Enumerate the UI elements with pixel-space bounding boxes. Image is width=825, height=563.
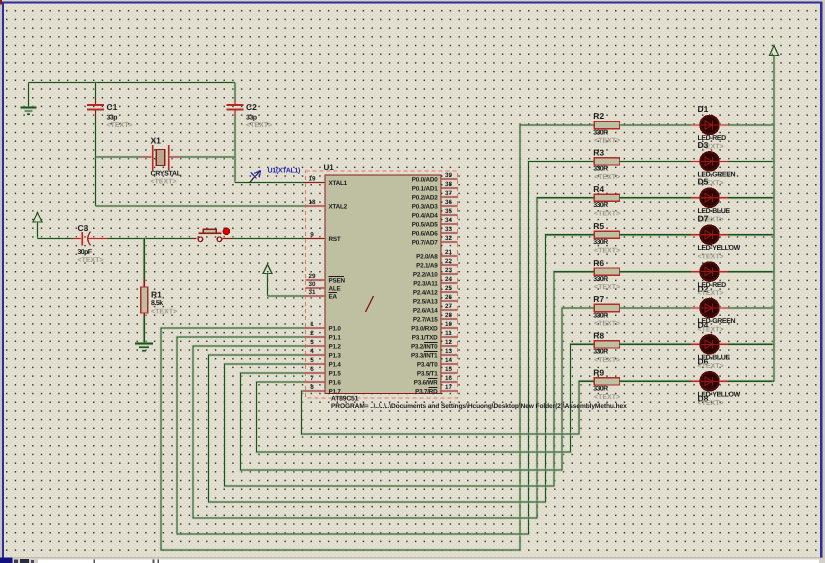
wire: D3 to power rail (728, 160, 774, 163)
svg-text:P3.6/WR: P3.6/WR (414, 379, 438, 386)
svg-text:<TEXT>: <TEXT> (698, 400, 724, 407)
svg-text:330R: 330R (593, 386, 608, 393)
svg-text:PSEN: PSEN (329, 277, 346, 284)
wire: button to RST (232, 237, 306, 240)
svg-text:33p: 33p (107, 115, 118, 122)
power symbol (top right) (770, 46, 779, 56)
svg-text:P2.6/A14: P2.6/A14 (413, 307, 438, 314)
svg-text:<TEXT>: <TEXT> (246, 122, 272, 129)
svg-text:39: 39 (445, 172, 453, 179)
U1 pin 1 (P1.0) (306, 321, 342, 332)
svg-text:14: 14 (445, 357, 453, 364)
wire: D4 to power rail (728, 306, 774, 309)
U1 pin 21 (P2.0/A8) (416, 249, 457, 260)
U1 pin 14 (P3.4/T0) (417, 357, 458, 368)
LED D3 (LED-GREEN) (691, 152, 728, 170)
svg-text:21: 21 (445, 249, 453, 256)
svg-text:11: 11 (445, 330, 452, 337)
wire: D1 to power rail (728, 123, 774, 126)
svg-text:AT89C51: AT89C51 (331, 396, 359, 403)
wire: P1.3 to R5 (209, 235, 595, 502)
wire: P1.0 to R2 (161, 125, 594, 550)
svg-text:P0.6/AD6: P0.6/AD6 (412, 230, 438, 237)
wire: D2 to power rail (728, 270, 774, 273)
svg-text:330R: 330R (593, 166, 608, 173)
U1 pin 23 (P2.2/A10) (413, 267, 458, 278)
resistor R7 (594, 304, 619, 311)
svg-text:<TEXT>: <TEXT> (698, 363, 724, 370)
wire: power to EA pin (268, 294, 306, 297)
svg-text:R3: R3 (593, 148, 604, 158)
svg-text:R6: R6 (593, 258, 604, 268)
U1 pin 15 (P3.5/T1) (417, 366, 458, 377)
LED D2 (LED-RED) (691, 262, 728, 280)
svg-text:3: 3 (310, 339, 314, 346)
svg-text:XTAL2: XTAL2 (329, 203, 348, 210)
U1 defect slash mark (366, 296, 374, 312)
svg-text:36: 36 (445, 199, 453, 206)
U1 pin 36 (P0.3/AD3) (412, 199, 458, 210)
svg-text:10: 10 (445, 321, 453, 328)
wire: D7 to power rail (728, 233, 774, 236)
svg-text:P3.4/T0: P3.4/T0 (417, 361, 438, 368)
svg-text:P0.5/AD5: P0.5/AD5 (412, 221, 438, 228)
resistor R2 (594, 121, 619, 128)
svg-text:P3.1/TXD: P3.1/TXD (412, 334, 438, 341)
svg-text:6: 6 (310, 366, 314, 373)
U1 pin 29 (PSEN) (306, 273, 346, 284)
resistor R5 (594, 231, 619, 238)
svg-text:<TEXT>: <TEXT> (698, 253, 724, 260)
U1 pin 7 (P1.6) (306, 375, 342, 386)
svg-text:U1: U1 (324, 163, 335, 172)
svg-text:R1: R1 (151, 290, 162, 300)
U1 pin 24 (P2.3/A11) (413, 276, 457, 287)
wire: power to C3 (38, 237, 74, 240)
svg-text:P0.2/AD2: P0.2/AD2 (412, 194, 438, 201)
wire: R6 to D2 (620, 270, 692, 273)
wire: R1 to ground (143, 317, 146, 344)
capacitor C3 (polarized) (73, 232, 108, 246)
svg-text:EA: EA (329, 293, 338, 300)
svg-text:LED-RED: LED-RED (698, 282, 727, 289)
svg-text:RST: RST (329, 236, 341, 243)
LED D1 (LED-RED) (691, 116, 728, 134)
svg-text:R8: R8 (593, 331, 604, 341)
svg-text:P1.4: P1.4 (329, 361, 342, 368)
resistor R8 (594, 341, 619, 348)
svg-text:22: 22 (445, 258, 453, 265)
LED D4 (LED-GREEN) (691, 299, 728, 317)
svg-text:1: 1 (310, 321, 314, 328)
U1 pin 37 (P0.2/AD2) (412, 190, 458, 201)
svg-text:P3.5/T1: P3.5/T1 (417, 370, 438, 377)
svg-text:9: 9 (310, 232, 314, 239)
svg-text:P1.3: P1.3 (329, 352, 342, 359)
capacitor C1 (87, 100, 104, 117)
U1 pin 19 (XTAL1) (306, 176, 348, 187)
svg-text:24: 24 (445, 276, 453, 283)
svg-text:PROGRAM= ..\..\..\..\Documents: PROGRAM= ..\..\..\..\Documents and Setti… (331, 403, 627, 410)
wire: R3 to D3 (620, 160, 692, 163)
svg-text:R2: R2 (593, 111, 604, 121)
svg-text:D1: D1 (698, 104, 709, 114)
wire: C1 down to XTAL2 line (94, 116, 97, 206)
svg-text:<TEXT>: <TEXT> (698, 327, 724, 334)
wire: R4 to D5 (620, 196, 692, 199)
svg-text:LED-YELLOW: LED-YELLOW (698, 245, 741, 252)
U1 pin 31 (EA) (306, 289, 338, 300)
svg-text:30pF: 30pF (78, 249, 93, 256)
svg-text:P0.3/AD3: P0.3/AD3 (412, 203, 438, 210)
U1 pin 8 (P1.7) (306, 384, 342, 395)
wire: D8 to power rail (728, 380, 774, 383)
svg-text:P1.2: P1.2 (329, 343, 342, 350)
svg-text:33p: 33p (246, 115, 257, 122)
U1 pin 2 (P1.1) (306, 330, 342, 341)
U1 pin 4 (P1.3) (306, 348, 342, 359)
U1 pin 33 (P0.6/AD6) (412, 226, 458, 237)
U1 pin 5 (P1.4) (306, 357, 342, 368)
svg-text:P2.1/A9: P2.1/A9 (416, 262, 438, 269)
svg-text:R7: R7 (593, 294, 604, 304)
wire: R1 branch down (143, 239, 146, 280)
svg-text:P1.7: P1.7 (329, 388, 342, 395)
svg-text:19: 19 (308, 176, 316, 183)
wire: R8 to D6 (620, 343, 692, 346)
svg-text:P3.0/RXD: P3.0/RXD (411, 325, 438, 332)
wire: P1.1 to R3 (177, 161, 594, 534)
svg-text:330R: 330R (593, 276, 608, 283)
svg-text:C1: C1 (107, 102, 118, 112)
svg-text:16: 16 (445, 375, 453, 382)
svg-text:R5: R5 (593, 221, 604, 231)
wire: crystal row left segment (95, 155, 141, 158)
svg-text:<TEXT>: <TEXT> (594, 321, 620, 328)
svg-text:35: 35 (445, 208, 453, 215)
U1 pin 3 (P1.2) (306, 339, 342, 350)
svg-text:<TEXT>: <TEXT> (594, 138, 620, 145)
svg-text:8: 8 (310, 384, 314, 391)
U1 pin 13 (P3.3/INT1) (411, 348, 458, 359)
wire: C3 to button (108, 237, 193, 240)
svg-text:P3.2/INT0: P3.2/INT0 (411, 343, 438, 350)
svg-text:<TEXT>: <TEXT> (594, 210, 620, 217)
U1 pin 18 (XTAL2) (306, 199, 348, 210)
wire: P1.4 to R6 (225, 272, 595, 486)
U1 pin 32 (P0.7/AD7) (412, 235, 458, 246)
U1 pin 34 (P0.5/AD5) (412, 217, 458, 228)
U1 pin 39 (P0.0/AD0) (412, 172, 458, 183)
resistor R6 (594, 268, 619, 275)
U1 pin 22 (P2.1/A9) (416, 258, 457, 269)
U1 pin 25 (P2.4/A12) (413, 285, 458, 296)
svg-text:P1.0: P1.0 (329, 325, 342, 332)
svg-text:X1: X1 (151, 136, 162, 146)
svg-text:8.5k: 8.5k (151, 299, 163, 307)
resistor R4 (594, 194, 619, 201)
U1 pin 35 (P0.4/AD4) (412, 208, 458, 219)
power symbol (EA) (263, 265, 272, 297)
wire: crystal row right segment (180, 155, 235, 158)
ground symbol (under R1) (135, 344, 153, 351)
U1 pin 30 (ALE) (306, 281, 341, 292)
svg-text:P2.3/A11: P2.3/A11 (413, 280, 438, 287)
wire: XTAL2 pin wire (95, 204, 305, 207)
svg-text:27: 27 (445, 303, 453, 310)
U1 pin 10 (P3.0/RXD) (411, 321, 457, 332)
svg-text:7: 7 (310, 375, 314, 382)
LED D7 (LED-YELLOW) (691, 226, 728, 244)
svg-text:P0.4/AD4: P0.4/AD4 (412, 212, 438, 219)
svg-text:38: 38 (445, 181, 453, 188)
svg-text:37: 37 (445, 190, 453, 197)
wire: R7 to D4 (620, 306, 692, 309)
op-amp-style selection box (U1 tagged outline) (306, 171, 458, 398)
resistor R1 (141, 279, 148, 317)
resistor R9 (594, 378, 619, 385)
svg-text:P3.3/INT1: P3.3/INT1 (411, 352, 438, 359)
svg-text:<TEXT>: <TEXT> (594, 247, 620, 254)
wire: P1.7 to R9 (302, 381, 595, 434)
svg-text:<TEXT>: <TEXT> (594, 394, 620, 401)
U1 pin 16 (P3.6/WR) (414, 375, 458, 386)
wire: XTAL1 pin wire (235, 181, 306, 184)
U1 pin 17 (P3.7/RD) (415, 384, 457, 395)
microcontroller U1 body (325, 175, 441, 394)
svg-text:31: 31 (308, 289, 316, 296)
svg-text:<TEXT>: <TEXT> (594, 174, 620, 181)
crystal X1 (141, 145, 180, 170)
svg-text:<TEXT>: <TEXT> (594, 357, 620, 364)
svg-text:330R: 330R (593, 129, 608, 136)
svg-text:17: 17 (445, 384, 453, 391)
svg-text:<TEXT>: <TEXT> (78, 257, 104, 264)
svg-text:LED-GREEN: LED-GREEN (698, 318, 736, 325)
svg-text:5: 5 (310, 357, 314, 364)
blue wire-label arrow (250, 171, 261, 183)
svg-text:R4: R4 (593, 184, 604, 194)
bottom status strip (0, 557, 825, 563)
svg-text:P3.7/RD: P3.7/RD (415, 388, 438, 395)
power symbol (left) (33, 213, 42, 239)
svg-text:330R: 330R (593, 349, 608, 356)
wire: D5 to power rail (728, 196, 774, 199)
svg-text:P0.1/AD1: P0.1/AD1 (412, 185, 438, 192)
svg-text:LED-YELLOW: LED-YELLOW (698, 392, 741, 399)
wire: R2 to D1 (620, 123, 692, 126)
wire: P1.2 to R4 (193, 198, 594, 518)
svg-text:30: 30 (308, 281, 316, 288)
capacitor C1 branch wire upper (94, 83, 97, 101)
svg-text:32: 32 (445, 235, 453, 242)
resistor R3 (594, 158, 619, 165)
svg-text:P0.0/AD0: P0.0/AD0 (412, 176, 438, 183)
svg-text:U1(XTAL1): U1(XTAL1) (268, 167, 301, 175)
svg-text:23: 23 (445, 267, 453, 274)
svg-text:D7: D7 (698, 214, 709, 224)
U1 pin 38 (P0.1/AD1) (412, 181, 458, 192)
U1 pin 12 (P3.2/INT0) (411, 339, 458, 350)
svg-text:330R: 330R (593, 312, 608, 319)
svg-text:C2: C2 (246, 102, 257, 112)
svg-text:13: 13 (445, 348, 453, 355)
U1 pin 9 (RST) (306, 232, 341, 243)
svg-text:P1.1: P1.1 (329, 334, 342, 341)
svg-text:28: 28 (445, 312, 453, 319)
wire: P1.6 to R8 (257, 344, 595, 452)
svg-text:18: 18 (308, 199, 316, 206)
svg-text:P2.5/A13: P2.5/A13 (413, 298, 438, 305)
push button (reset) (193, 228, 233, 242)
U1 pin 6 (P1.5) (306, 366, 342, 377)
svg-text:P1.5: P1.5 (329, 370, 342, 377)
svg-text:29: 29 (308, 273, 316, 280)
svg-text:D3: D3 (698, 140, 709, 150)
svg-text:4: 4 (310, 348, 314, 355)
svg-text:XTAL1: XTAL1 (329, 180, 348, 187)
svg-text:R9: R9 (593, 368, 604, 378)
ground symbol (top left) (21, 83, 37, 115)
svg-text:P1.6: P1.6 (329, 379, 342, 386)
wire: D6 to power rail (728, 343, 774, 346)
svg-text:<TEXT>: <TEXT> (594, 284, 620, 291)
svg-text:P2.4/A12: P2.4/A12 (413, 289, 438, 296)
svg-text:C3: C3 (78, 223, 89, 233)
svg-text:CRYSTAL: CRYSTAL (151, 171, 182, 178)
svg-text:P0.7/AD7: P0.7/AD7 (412, 239, 438, 246)
svg-text:P2.7/A15: P2.7/A15 (413, 316, 438, 323)
svg-text:<TEXT>: <TEXT> (107, 122, 133, 129)
LED D5 (LED-BLUE) (691, 189, 728, 207)
svg-text:15: 15 (445, 366, 453, 373)
wire: R5 to D7 (620, 233, 692, 236)
svg-text:D5: D5 (698, 177, 709, 187)
U1 pin 27 (P2.6/A14) (413, 303, 458, 314)
U1 pin 28 (P2.7/A15) (413, 312, 458, 323)
svg-text:P2.0/A8: P2.0/A8 (416, 253, 438, 260)
svg-text:330R: 330R (593, 202, 608, 209)
wire: top rail from ground to C2 (29, 81, 236, 84)
svg-text:25: 25 (445, 285, 453, 292)
capacitor C2 (227, 100, 244, 117)
svg-text:<TEXT>: <TEXT> (698, 290, 724, 297)
svg-text:<TEXT>: <TEXT> (151, 179, 177, 186)
svg-text:LED-BLUE: LED-BLUE (698, 355, 731, 362)
LED D6 (LED-BLUE) (691, 335, 728, 353)
U1 pin 26 (P2.5/A13) (413, 294, 458, 305)
svg-text:34: 34 (445, 217, 453, 224)
svg-text:P2.2/A10: P2.2/A10 (413, 271, 438, 278)
svg-text:ALE: ALE (329, 285, 341, 292)
wire: power rail (right) (772, 56, 775, 382)
svg-text:<TEXT>: <TEXT> (151, 308, 177, 315)
svg-text:330R: 330R (593, 239, 608, 246)
LED D8 (LED-YELLOW) (691, 372, 728, 390)
svg-text:26: 26 (445, 294, 453, 301)
wire: P1.5 to R7 (241, 308, 595, 470)
capacitor C2 branch wire upper (233, 83, 236, 101)
svg-text:2: 2 (310, 330, 314, 337)
wire: C2 down to XTAL1 line (233, 116, 236, 183)
U1 pin 11 (P3.1/TXD) (412, 330, 458, 341)
svg-text:12: 12 (445, 339, 453, 346)
wire: R9 to D8 (620, 380, 692, 383)
svg-text:33: 33 (445, 226, 453, 233)
